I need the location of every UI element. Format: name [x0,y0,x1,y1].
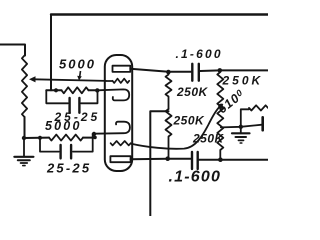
capacitor .1-600 (bottom coupling) [191,152,193,169]
node junction grid curve / right resistor [218,104,223,109]
wire top B+ rail [51,13,268,15]
wire upper bypass loop left [46,90,68,103]
wire resistor right lead to cathode [89,89,98,91]
wire lower bypass loop right [73,134,93,152]
wire right resistor to ground [221,125,262,128]
wire vertical from rail down to cathode resistor node [50,15,52,91]
svg-text:5000: 5000 [45,119,82,133]
resistor 250K (upper left) [166,72,172,109]
node junction cathode/upper resistor [95,88,99,92]
wire coupling node to capacitor (top) [168,71,191,73]
resistor 5000 (upper cathode bias) [62,87,89,93]
node junction pot/ground/resistor [22,136,26,140]
svg-text:250K: 250K [222,74,264,88]
svg-text:25-25: 25-25 [46,161,91,176]
wire bottom plate lead [131,158,168,161]
potentiometer (volume control) [22,56,27,118]
node junction plate wire / left resistor [165,156,170,161]
wire pot bottom lead [24,117,26,138]
wire lower cathode resistor rail [24,137,49,139]
svg-text:250K: 250K [176,85,209,99]
wire bottom coupling lead [168,158,191,160]
wire lower bypass loop left [40,138,59,152]
resistor 6100 (top right, to edge) [249,105,268,110]
node junction rail/resistor [54,88,58,92]
node junction ground tee [239,125,243,129]
plate (top triode) [113,66,131,72]
ground (right) [232,132,250,134]
grid (top triode) [106,79,129,83]
cathode (bottom triode) [94,122,130,134]
grid (bottom triode) [111,141,131,145]
wire capacitor to right node (top) [200,69,268,72]
resistor 250K-250K (right column) [217,70,223,159]
wire resistor right lead [83,137,96,139]
resistor 250K (lower left) [166,109,172,159]
wire input lead left edge [0,45,25,56]
wire upper cathode resistor rail [46,89,61,91]
wire capacitor to right (bottom) [199,159,268,161]
wire top plate to coupling node [130,69,168,72]
svg-text:250K: 250K [192,132,225,146]
capacitor 25-25 (lower bypass) [59,145,61,158]
node junction bottom right [218,157,223,162]
svg-text:.1-600: .1-600 [169,169,222,186]
capacitor 25-25 (upper bypass) [68,98,70,113]
wiper arrow of potentiometer [35,79,107,81]
capacitor .1-600 (top coupling) [191,64,193,81]
wire divider tap to output [150,111,168,216]
capacitor plate (right edge) [261,117,264,130]
plate (bottom triode) [110,156,130,162]
node junction cathode/lower resistor [92,132,96,136]
svg-text:.1-600: .1-600 [176,47,223,61]
resistor 5000 (lower cathode bias) [49,135,83,141]
tube envelope (dual triode) [105,55,132,171]
node junction top left 250K [166,70,171,75]
cathode (top triode) [97,89,129,100]
ground (left) [23,138,25,156]
wire ground riser / resistor corner [241,109,249,133]
wire upper bypass loop right [81,90,98,103]
pointer arrow for 5000 label [80,71,81,78]
svg-text:5000: 5000 [59,57,96,72]
node junction lower loop left [38,136,42,140]
svg-text:250K: 250K [173,114,206,128]
wire grid of bottom triode to divider (curved) [131,106,220,148]
node junction top right 250K [218,68,223,73]
